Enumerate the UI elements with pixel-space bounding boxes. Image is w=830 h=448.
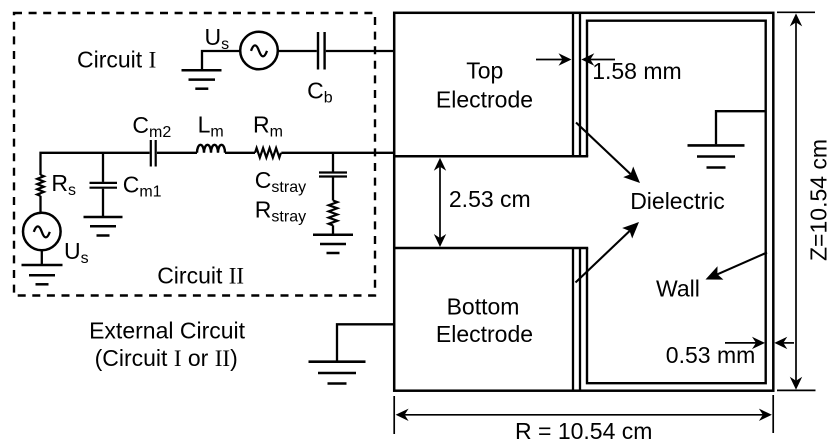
label Bottom Electrode xyxy=(436,293,533,347)
wire Rstray to ground xyxy=(332,225,334,235)
dimension R extension ticks xyxy=(394,395,773,434)
label Cb xyxy=(307,78,333,107)
svg-text:Cstray: Cstray xyxy=(255,167,306,196)
svg-text:Us: Us xyxy=(64,238,89,267)
wire Lm to Rm xyxy=(225,152,255,154)
label 0.53 mm xyxy=(666,342,755,368)
wire Circuit II main node left segment xyxy=(41,153,150,175)
wire Rm to chamber (node with Cstray) xyxy=(281,152,395,154)
label Cstray xyxy=(255,167,306,196)
svg-text:Lm: Lm xyxy=(198,112,224,141)
ground (Rstray) xyxy=(313,235,353,253)
svg-text:Wall: Wall xyxy=(656,276,700,302)
label Lm xyxy=(198,112,224,141)
svg-text:Rstray: Rstray xyxy=(255,197,306,226)
capacitor Cstray xyxy=(319,173,347,177)
top electrode right edge xyxy=(572,13,574,157)
svg-text:R = 10.54 cm: R = 10.54 cm xyxy=(515,418,652,444)
capacitor Cm1 xyxy=(90,183,118,188)
label Circuit I xyxy=(77,46,156,72)
label Rs xyxy=(51,170,76,199)
ground (Cm1) xyxy=(84,217,123,236)
dimension 2.53 cm arrow xyxy=(434,158,446,247)
label (Circuit I or II) xyxy=(95,345,238,371)
dashed box External Circuit xyxy=(14,13,375,296)
arrow to bottom dielectric xyxy=(576,222,640,283)
wire source U1 to Cb xyxy=(278,50,317,52)
label Us (Circuit II) xyxy=(64,238,89,267)
label R = 10.54 cm xyxy=(515,418,652,444)
wire Cstray to Rstray xyxy=(332,178,334,201)
dimension R arrow line xyxy=(396,409,772,421)
arrow to wall xyxy=(706,253,768,280)
label 1.58 mm xyxy=(592,58,681,84)
dimension Z extension ticks xyxy=(777,12,816,390)
svg-text:Z=10.54 cm: Z=10.54 cm xyxy=(806,139,830,261)
wire node to Cstray xyxy=(332,153,334,172)
svg-text:Dielectric: Dielectric xyxy=(630,188,725,214)
capacitor Cb xyxy=(318,32,325,70)
wire Cm1 to ground xyxy=(102,189,104,217)
resistor Rstray xyxy=(329,201,338,226)
wire chamber wall to ground xyxy=(716,111,765,144)
wire Cb to chamber top electrode xyxy=(326,50,395,52)
svg-text:(Circuit I or II): (Circuit I or II) xyxy=(95,345,238,371)
label Us (Circuit I) xyxy=(205,24,230,53)
wire Rs to source U2 xyxy=(39,196,41,213)
svg-text:Circuit II: Circuit II xyxy=(157,262,244,288)
bottom dielectric plate line xyxy=(579,248,581,391)
dimension 0.53 mm arrows xyxy=(725,337,794,349)
source U1 (Circuit I sine source) xyxy=(240,32,278,70)
wire source U1 left lead xyxy=(202,51,240,70)
ground (Circuit II source) xyxy=(22,265,63,284)
svg-text:Cm2: Cm2 xyxy=(132,112,171,141)
label Top Electrode xyxy=(436,58,533,113)
svg-text:Electrode: Electrode xyxy=(436,86,533,112)
resistor Rs xyxy=(37,175,44,196)
svg-text:Circuit I: Circuit I xyxy=(77,46,156,72)
label 2.53 cm xyxy=(449,186,531,212)
source U2 (Circuit II sine source) xyxy=(23,213,61,251)
top dielectric plate line xyxy=(579,13,581,157)
svg-text:Rs: Rs xyxy=(51,170,76,199)
bottom electrode right edge xyxy=(572,248,574,391)
capacitor Cm2 xyxy=(151,140,156,167)
ground (chamber wall) xyxy=(688,145,745,167)
svg-text:External Circuit: External Circuit xyxy=(89,318,246,344)
chamber outer box xyxy=(394,13,773,391)
svg-text:Cm1: Cm1 xyxy=(123,172,162,201)
label External Circuit xyxy=(89,318,246,344)
label Cm1 xyxy=(123,172,162,201)
svg-text:Rm: Rm xyxy=(253,112,283,141)
label Rm xyxy=(253,112,283,141)
svg-text:0.53 mm: 0.53 mm xyxy=(666,342,755,368)
ground (bottom electrode) xyxy=(309,362,366,384)
label Cm2 xyxy=(132,112,171,141)
svg-text:1.58 mm: 1.58 mm xyxy=(592,58,681,84)
wire source U2 to ground xyxy=(41,250,43,264)
bottom electrode top edge xyxy=(394,247,588,250)
resistor Rm xyxy=(255,148,281,158)
label Circuit II xyxy=(157,262,244,288)
wire Cm2 to Lm xyxy=(157,152,197,154)
svg-text:Bottom: Bottom xyxy=(447,293,520,319)
svg-text:Electrode: Electrode xyxy=(436,321,533,347)
top electrode bottom edge xyxy=(394,155,588,158)
wire bottom electrode to ground xyxy=(337,324,395,360)
label Rstray xyxy=(255,197,306,226)
inductor Lm xyxy=(197,145,225,153)
dimension Z arrow line xyxy=(790,13,802,389)
svg-text:Top: Top xyxy=(466,58,503,84)
arrow to top dielectric xyxy=(576,123,640,184)
svg-text:Cb: Cb xyxy=(307,78,333,107)
chamber inner wall box xyxy=(587,21,766,384)
wire node to Cm1 xyxy=(102,153,104,182)
dimension 1.58 mm arrows xyxy=(536,53,615,65)
label Z=10.54 cm xyxy=(806,139,830,261)
svg-text:Us: Us xyxy=(205,24,230,53)
label Wall xyxy=(656,276,700,302)
svg-text:2.53 cm: 2.53 cm xyxy=(449,186,531,212)
label Dielectric xyxy=(630,188,725,214)
ground (Circuit I source) xyxy=(182,70,222,88)
